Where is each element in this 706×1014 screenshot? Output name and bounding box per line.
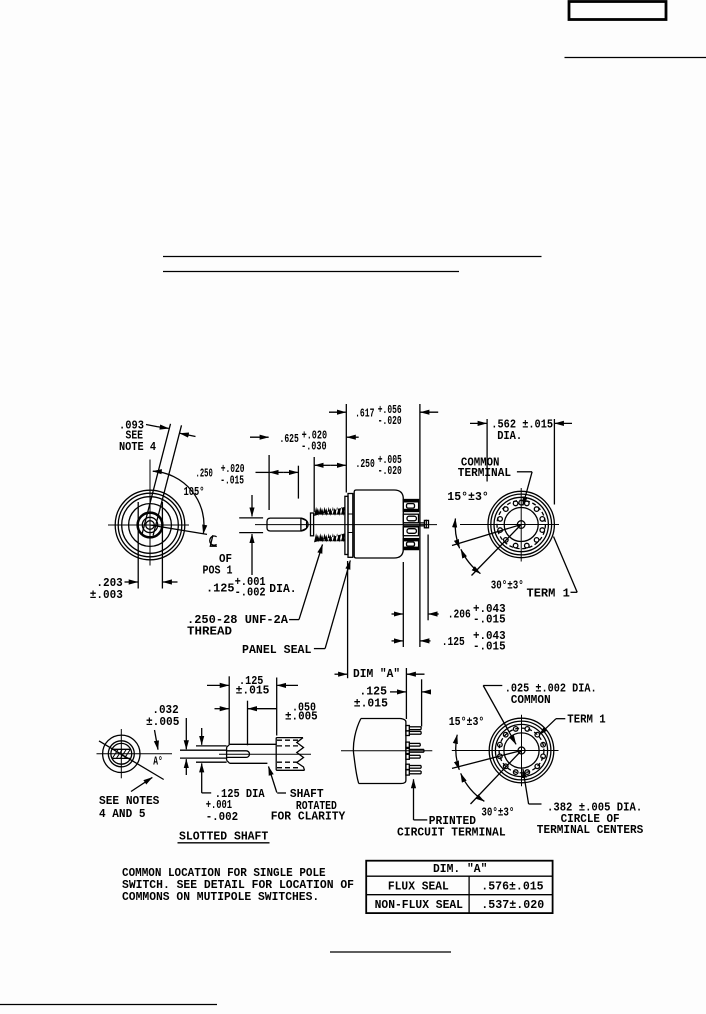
svg-text:A°: A° (153, 755, 163, 769)
svg-text:-.015: -.015 (473, 612, 506, 626)
panel seal (348, 494, 353, 558)
view C terminal centers dashed circle (497, 500, 545, 548)
svg-text:DIM. "A": DIM. "A" (433, 862, 487, 876)
view D centerlines (97, 753, 173, 755)
svg-text:.617: .617 (355, 407, 374, 421)
view E body with break line (353, 719, 361, 784)
svg-text:-.020: -.020 (378, 414, 402, 428)
svg-text:-.015: -.015 (220, 473, 244, 487)
terminal lug 3 (403, 527, 418, 536)
view A horizontal centerline (108, 524, 189, 526)
terminal lug 4 (403, 539, 418, 550)
dimension .125 shaft dia arrows (251, 495, 253, 516)
centerline symbol (210, 535, 217, 546)
threaded section break zigzag (297, 738, 305, 771)
centerline of position 1 (150, 525, 207, 534)
dimension .206 arrows (392, 613, 403, 615)
svg-text:FLUX SEAL: FLUX SEAL (388, 879, 449, 893)
svg-text:PANEL SEAL: PANEL SEAL (242, 643, 311, 657)
shaft (267, 518, 301, 531)
shaft taper to bushing (301, 518, 307, 521)
svg-text:±.005: ±.005 (146, 715, 179, 729)
side view rod edges (196, 745, 227, 747)
dimension .125 dia arrows pair 1 (185, 718, 187, 749)
svg-text:±.015: ±.015 (236, 683, 270, 697)
thread top band (314, 507, 345, 516)
dimension .250 +.020 shaft length extension line (297, 466, 299, 499)
dimension .206 extension lines (402, 562, 404, 647)
dimension .203 extension lines (137, 502, 139, 589)
svg-text:15°±3°: 15°±3° (449, 715, 485, 729)
dimension .125 pc terminal extension line (421, 679, 423, 726)
dimension .617 extension lines (345, 404, 347, 493)
threaded section hidden lines (277, 740, 301, 768)
svg-text:±.015: ±.015 (354, 697, 388, 711)
svg-text:-.030: -.030 (301, 439, 327, 453)
105 degree arc (153, 471, 204, 534)
view E centerline (341, 750, 432, 752)
dimension .625 arrows (250, 436, 269, 438)
view D end view circles (103, 735, 140, 772)
svg-text:.125: .125 (206, 581, 235, 595)
dim A arrows (335, 673, 348, 675)
svg-text:-.002: -.002 (206, 810, 239, 824)
svg-text:DIA.: DIA. (269, 582, 296, 596)
svg-text:TERM 1: TERM 1 (527, 586, 570, 600)
svg-text:.125: .125 (442, 635, 465, 649)
svg-text:15°±3°: 15°±3° (447, 490, 489, 504)
dimension .050 arrows (215, 708, 229, 710)
svg-text:105°: 105° (184, 485, 205, 499)
dimension .250 +.020 dim line and arrows (256, 471, 270, 473)
svg-text:DIA.: DIA. (497, 429, 522, 443)
dimension .125 slot length extension lines (228, 676, 230, 744)
slotted shaft body (227, 744, 277, 763)
bushing shoulder washer (345, 496, 348, 554)
svg-text:±.005: ±.005 (285, 710, 318, 724)
dim A extension lines (347, 561, 349, 678)
svg-text:.250: .250 (356, 457, 375, 471)
view F 15 deg radial line (452, 751, 522, 769)
slot in shaft (227, 751, 250, 758)
bushing face plate (311, 513, 314, 536)
svg-text:.206: .206 (448, 608, 471, 622)
svg-text:CIRCUIT TERMINAL: CIRCUIT TERMINAL (397, 825, 506, 839)
view C 30 deg arc (461, 549, 481, 573)
view F circles (489, 718, 554, 783)
terminal centers dia callout (523, 769, 529, 804)
side view slot edge lines (180, 749, 227, 751)
dim A table (366, 861, 552, 913)
shaft rotated callout leader (269, 767, 277, 793)
dimension .125 pc arrows (390, 691, 406, 693)
svg-text:-.020: -.020 (378, 464, 402, 478)
center pin (403, 522, 424, 524)
svg-text:TERMINAL: TERMINAL (458, 466, 511, 480)
view F centerlines (452, 750, 559, 752)
dimension .050 extension line (247, 701, 249, 746)
svg-text:FOR CLARITY: FOR CLARITY (271, 810, 346, 824)
dimension .125 shaft dia extension lines (239, 517, 263, 519)
view F 15 deg arc (456, 735, 460, 770)
svg-text:.537±.020: .537±.020 (481, 898, 544, 912)
title underline 1 (163, 256, 542, 258)
dimension .617 arrows (329, 411, 346, 413)
shaft end face arc (301, 518, 308, 531)
view A vertical centerline (149, 460, 151, 566)
svg-text:COMMON: COMMON (511, 693, 551, 707)
view C common terminal mark (519, 500, 524, 505)
svg-text:.576±.015: .576±.015 (481, 879, 543, 893)
svg-text:SEE NOTES: SEE NOTES (99, 794, 159, 808)
dimension .125 slot arrows (207, 684, 229, 686)
dimension .093 left arrow (146, 425, 169, 429)
view E pc terminals (406, 726, 424, 776)
svg-text:-.002: -.002 (235, 586, 266, 600)
svg-text:POS 1: POS 1 (203, 564, 233, 578)
view D slot (112, 748, 131, 750)
svg-text:4 AND 5: 4 AND 5 (99, 807, 146, 821)
printed circuit terminal callout (413, 779, 415, 820)
view D rotation reference line (99, 741, 164, 780)
view F 30 deg arc (461, 773, 485, 801)
rule under title block (565, 57, 706, 59)
view C terminal marks (498, 501, 545, 548)
figure caption rule bottom center (330, 951, 451, 953)
view A bushing bold ring (138, 513, 163, 538)
view C 15 deg radial line (452, 525, 521, 546)
svg-text:30°±3°: 30°±3° (481, 805, 514, 819)
terminal lug 2 (403, 514, 418, 523)
svg-text:±.003: ±.003 (90, 588, 123, 602)
view B centerline (255, 524, 437, 526)
svg-text:SLOTTED SHAFT: SLOTTED SHAFT (179, 830, 268, 844)
thread bottom band (314, 533, 345, 542)
svg-text:30°±3°: 30°±3° (491, 578, 524, 592)
view F terminal marks (498, 727, 546, 775)
dimension .032 leader (155, 730, 159, 750)
view A shaft slot line left (142, 424, 170, 534)
view D side view centerline (219, 753, 311, 755)
view A shaft slot line right (153, 425, 181, 535)
svg-text:TERM 1: TERM 1 (567, 712, 605, 726)
see notes leader (131, 777, 152, 791)
footer rule bottom left (0, 1004, 217, 1006)
dimension .562 extension lines (486, 419, 488, 482)
dimension .562 arrows (470, 422, 487, 424)
title block box top right (569, 2, 666, 20)
dimension .203 arrows (125, 581, 138, 583)
view F 30 deg radial line (471, 751, 522, 805)
svg-text:TERMINAL CENTERS: TERMINAL CENTERS (537, 823, 644, 837)
dimension .125 terminal length arrows (392, 640, 403, 642)
view C centerlines (460, 524, 559, 526)
title underline 2 (163, 271, 459, 273)
dimension .093 right arrow (180, 433, 196, 436)
view F terminal centers dashed circle (499, 728, 544, 773)
svg-text:COMMONS ON MUTIPOLE SWITCHES.: COMMONS ON MUTIPOLE SWITCHES. (122, 890, 319, 904)
svg-text:NON-FLUX SEAL: NON-FLUX SEAL (375, 898, 463, 912)
svg-text:-.015: -.015 (473, 639, 506, 653)
dimension .250 +.005 dim line and arrows (315, 464, 331, 466)
view A concentric circles (115, 490, 185, 560)
svg-text:NOTE 4: NOTE 4 (119, 440, 156, 454)
svg-text:.625: .625 (280, 432, 299, 446)
view C 30 deg radial line (472, 525, 522, 576)
view C circles (488, 491, 554, 557)
svg-text:.250: .250 (196, 466, 213, 480)
switch body (354, 490, 403, 558)
dimension .625 extension line (268, 455, 270, 510)
terminal lug 1 (403, 500, 418, 512)
svg-text:DIM "A": DIM "A" (353, 667, 400, 681)
dimension .125 dia arrows pair 2 (201, 728, 203, 745)
view C 15 deg arc (455, 519, 459, 549)
threaded section (276, 738, 304, 771)
dimension .250 +.005 extension line (313, 457, 315, 512)
svg-text:THREAD: THREAD (187, 624, 232, 638)
